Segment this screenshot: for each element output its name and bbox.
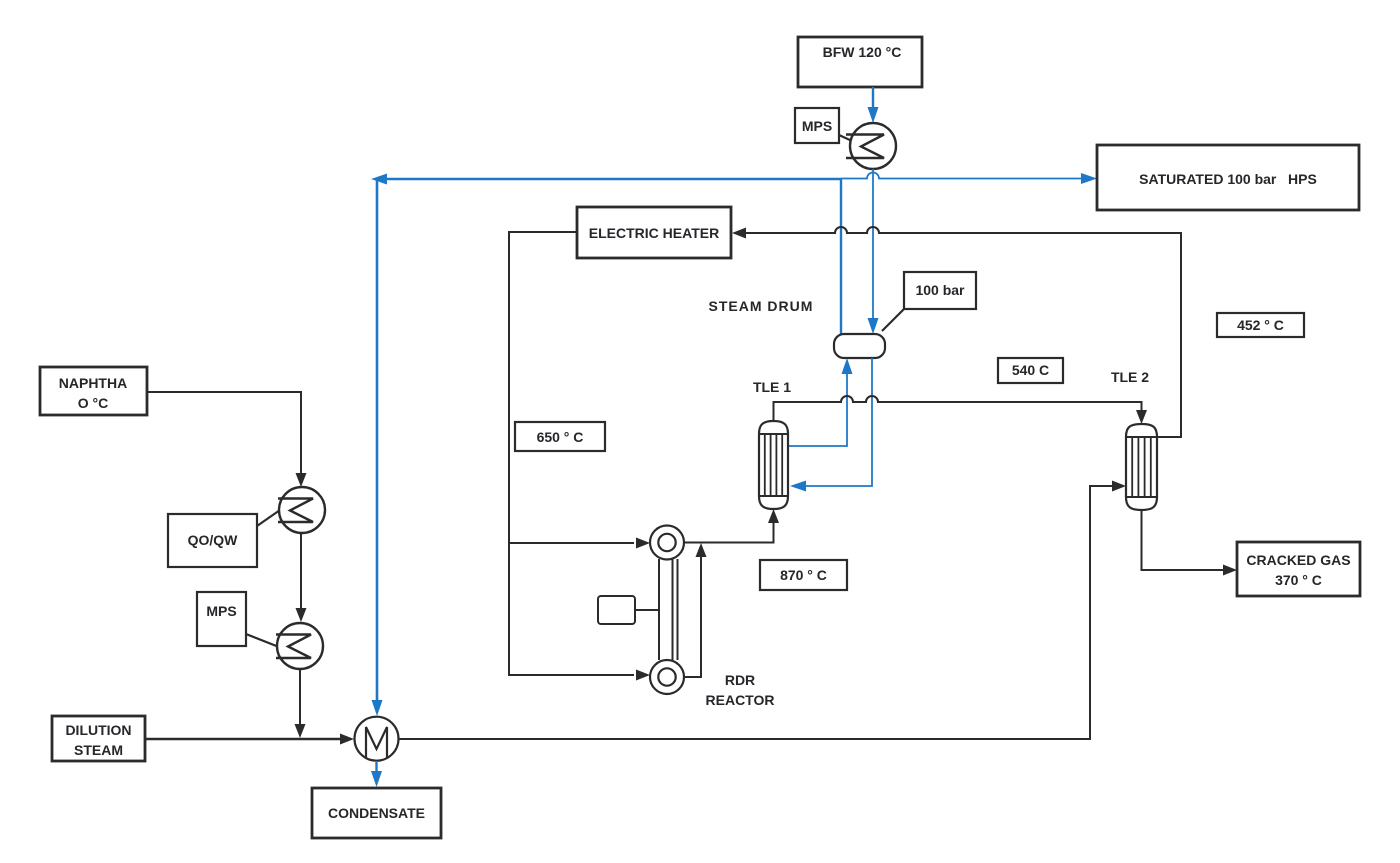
svg-text:NAPHTHA: NAPHTHA <box>59 375 127 391</box>
svg-text:REACTOR: REACTOR <box>706 692 775 708</box>
wire TLE1 top to TLE2 top (540C line) <box>774 396 1148 424</box>
wire blue mixer to condensate <box>371 761 382 787</box>
svg-text:CRACKED GAS: CRACKED GAS <box>1246 552 1350 568</box>
wire 452C line from TLE2 to electric heater <box>732 227 1181 437</box>
svg-text:STEAM: STEAM <box>74 742 123 758</box>
wire blue E3 bottom down to steam drum <box>868 169 879 334</box>
box MPS left <box>197 592 246 646</box>
svg-text:DILUTION: DILUTION <box>65 722 131 738</box>
heat exchanger E1 <box>278 487 325 533</box>
wire TLE2 bottom to cracked gas <box>1142 510 1238 576</box>
box BFW 120 C <box>798 37 922 87</box>
box DILUTION STEAM <box>52 716 145 761</box>
wire blue saturated steam header <box>371 173 1097 185</box>
svg-text:STEAM DRUM: STEAM DRUM <box>709 298 814 314</box>
box ELECTRIC HEATER <box>577 207 731 258</box>
svg-text:540 C: 540 C <box>1012 362 1049 378</box>
heat exchanger E2 <box>276 623 323 669</box>
heat exchanger E3 <box>846 123 896 169</box>
mixer M <box>355 717 399 761</box>
wire reactor bottom outlet up to top line <box>684 543 707 677</box>
wire naphtha to exchanger E1 <box>147 392 307 487</box>
svg-text:870 ° C: 870 ° C <box>780 567 827 583</box>
reactor column <box>659 559 678 660</box>
box CRACKED GAS <box>1237 542 1360 596</box>
svg-text:BFW 120 °C: BFW 120 °C <box>823 44 902 60</box>
wire reactor outlet to TLE1 bottom (870C line) <box>684 509 779 543</box>
box QO/QW <box>168 514 257 567</box>
svg-text:TLE 2: TLE 2 <box>1111 369 1149 385</box>
connector QO/QW to E1 <box>257 510 280 526</box>
wire blue BFW to exchanger E3 <box>868 87 879 123</box>
svg-text:O °C: O °C <box>78 395 109 411</box>
reactor RDR bottom circle <box>650 660 684 694</box>
svg-text:ELECTRIC HEATER: ELECTRIC HEATER <box>589 225 719 241</box>
box 540 C <box>998 358 1063 383</box>
svg-text:SATURATED 100 bar HPS: SATURATED 100 bar HPS <box>1139 171 1317 187</box>
svg-text:TLE 1: TLE 1 <box>753 379 791 395</box>
burner box <box>598 596 659 624</box>
wire dilution steam to mixer <box>145 734 354 745</box>
svg-text:452 ° C: 452 ° C <box>1237 317 1284 333</box>
svg-text:100 bar: 100 bar <box>915 282 965 298</box>
box 100 bar <box>904 272 976 309</box>
TLE1 vessel <box>759 421 788 509</box>
wire E2 down to dilution line <box>295 669 306 738</box>
TLE2 vessel <box>1126 424 1157 510</box>
svg-text:RDR: RDR <box>725 672 755 688</box>
svg-text:370 ° C: 370 ° C <box>1275 572 1322 588</box>
svg-text:MPS: MPS <box>206 603 236 619</box>
wire blue header corner down to mixer <box>372 179 383 716</box>
reactor RDR top circle <box>650 526 684 560</box>
box CONDENSATE <box>312 788 441 838</box>
box MPS top <box>795 108 839 143</box>
wire mixer outlet to TLE2 <box>399 481 1127 740</box>
wire blue drum top riser x841 <box>840 179 842 334</box>
connector 100 bar to drum <box>882 309 904 331</box>
box 650 C <box>515 422 605 451</box>
box NAPHTHA <box>40 367 147 415</box>
box SATURATED 100 bar HPS <box>1097 145 1359 210</box>
label RDR REACTOR <box>706 672 775 708</box>
connector MPS to E3 <box>839 135 852 141</box>
wire E1 to E2 <box>296 533 307 622</box>
svg-text:QO/QW: QO/QW <box>188 532 239 548</box>
svg-text:CONDENSATE: CONDENSATE <box>328 805 425 821</box>
wire blue drum downcomer to TLE1 <box>790 358 872 492</box>
connector MPS to E2 <box>246 634 279 647</box>
box 452 C <box>1217 313 1304 337</box>
steam drum <box>834 334 885 358</box>
svg-text:650 ° C: 650 ° C <box>537 429 584 445</box>
svg-text:MPS: MPS <box>802 118 832 134</box>
box 870 C <box>760 560 847 590</box>
wire blue TLE1 riser to drum bottom <box>788 358 853 446</box>
wire electric heater to reactor feed (650C line) <box>509 232 650 681</box>
